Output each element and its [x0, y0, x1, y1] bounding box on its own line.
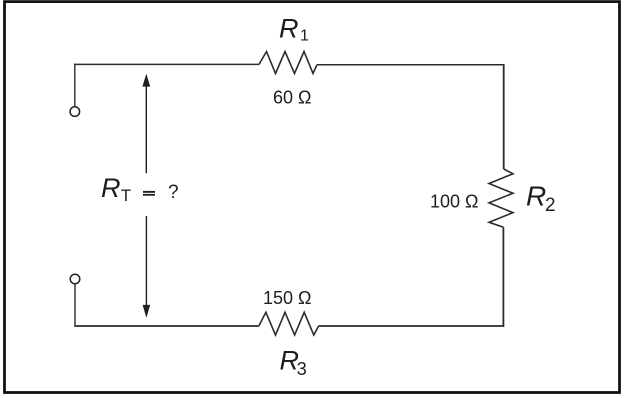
svg-text:150 Ω: 150 Ω [263, 288, 312, 308]
svg-text:2: 2 [545, 195, 556, 216]
svg-text:?: ? [168, 182, 179, 203]
wire bottom terminal to bottom rail [74, 284, 76, 327]
wire right rail upper [503, 64, 505, 169]
terminal (top-left input) [70, 107, 80, 117]
wire right rail lower [502, 227, 504, 326]
svg-text:1: 1 [300, 28, 309, 45]
svg-text:100 Ω: 100 Ω [430, 192, 479, 212]
terminal (bottom-left input) [70, 274, 80, 284]
measurement arrow RT lower half [145, 216, 147, 307]
resistor R1 [259, 52, 317, 74]
wire top rail left [74, 63, 259, 65]
svg-text:R: R [101, 173, 121, 203]
wire bottom rail right [319, 325, 505, 327]
svg-text:60 Ω: 60 Ω [273, 88, 311, 108]
wire bottom rail left [74, 325, 258, 327]
resistor R2 [489, 169, 513, 227]
wire top terminal to top rail [74, 64, 76, 107]
svg-text:T: T [121, 186, 131, 205]
svg-text:R: R [526, 181, 546, 212]
svg-text:3: 3 [297, 359, 307, 379]
svg-text:R: R [279, 14, 299, 44]
wire top rail right [317, 64, 504, 66]
resistor R3 [259, 312, 319, 335]
measurement arrow RT upper half [145, 85, 147, 173]
